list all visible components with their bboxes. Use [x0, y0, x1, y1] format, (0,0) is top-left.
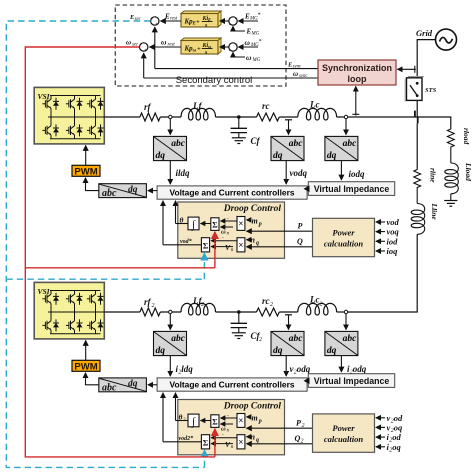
voltage and current controllers box DG2	[157, 378, 307, 391]
ground (Cf)	[232, 138, 246, 144]
svg-text:ldq: ldq	[181, 364, 193, 374]
node iodq tap	[344, 115, 347, 118]
capacitor Cf	[231, 117, 247, 138]
PI block KpE+KiE/s	[181, 11, 221, 29]
svg-text:sync: sync	[293, 64, 302, 69]
wire mp input arrow DG2	[247, 416, 251, 418]
wire tap down to abc/dq (i2ldq)	[169, 314, 171, 330]
resistor rc	[257, 113, 280, 121]
svg-text:dq: dq	[128, 185, 138, 195]
svg-text:iodq: iodq	[349, 169, 366, 179]
wire vod2* out of droop box	[163, 441, 201, 443]
svg-text:+: +	[235, 43, 238, 48]
svg-text:ω: ω	[126, 39, 131, 47]
wire v2oq input	[376, 426, 385, 428]
wire w_sec arrow into droop2 sum	[214, 429, 216, 457]
wire controllers to dq/abc	[148, 190, 157, 192]
svg-text:od: od	[394, 413, 403, 423]
wire Q from power calc to multiplier	[247, 246, 313, 248]
wire theta up into controllers	[175, 201, 177, 224]
power calculation box DG1	[313, 218, 375, 256]
wire sum to integrator	[201, 223, 211, 225]
svg-text:VSI: VSI	[38, 92, 51, 101]
svg-text:p: p	[258, 221, 262, 227]
wire VSI output to rf	[104, 116, 140, 118]
resistor rload	[447, 127, 454, 149]
svg-text:Σ: Σ	[203, 240, 209, 250]
svg-text:voq: voq	[387, 227, 400, 237]
integrator block DG1	[188, 217, 199, 231]
svg-text:oq: oq	[394, 422, 403, 432]
wire ildq to controllers	[169, 161, 171, 184]
inductor Lc	[298, 108, 337, 120]
svg-text:p: p	[258, 418, 262, 424]
svg-text:Cf: Cf	[251, 136, 261, 146]
svg-text:od: od	[392, 432, 401, 442]
svg-text:Secondary control: Secondary control	[176, 75, 253, 86]
svg-text:2: 2	[201, 302, 204, 308]
wire ioq input	[376, 250, 385, 252]
wire grid voltage tap into sync loop	[398, 66, 416, 73]
svg-text:dq: dq	[128, 379, 138, 389]
wire bus tap up into sync loop	[352, 87, 359, 116]
wire sum to integrator DG2	[201, 420, 211, 422]
svg-text:ω: ω	[193, 49, 197, 54]
wire nq input arrow DG2	[247, 436, 251, 438]
wire rc2 to Lc2 with v2odq tap	[279, 311, 298, 313]
svg-text:rf: rf	[144, 102, 152, 112]
wire E_sec branch to droop1 (cyan)	[6, 278, 204, 280]
wire Vn stub into sum DG2	[211, 443, 233, 445]
svg-text:rest: rest	[168, 42, 176, 47]
svg-text:×: ×	[238, 416, 243, 426]
wire E_sec distribution (cyan dashed)	[6, 21, 204, 467]
wire PWM to VSI	[85, 146, 87, 166]
abc/dq block i2ldq	[154, 331, 187, 356]
svg-text:Σ: Σ	[212, 417, 218, 427]
svg-text:Voltage and Current controller: Voltage and Current controllers	[169, 188, 294, 198]
svg-text:-: -	[229, 23, 231, 29]
sum block w DG1	[211, 218, 219, 231]
inverse dq/abc block DG1	[99, 184, 147, 200]
svg-text:rf: rf	[144, 297, 152, 307]
wire multiplier to sum (E row)	[211, 240, 237, 242]
summing junction E comparator (right, top)	[229, 17, 238, 29]
svg-text:Virtual Impedance: Virtual Impedance	[314, 184, 390, 194]
wire STS to bus junction	[416, 100, 418, 117]
svg-text:calcualtion: calcualtion	[324, 434, 363, 444]
wire E_sec arrow into droop2 sum	[204, 450, 206, 467]
resistor rline	[414, 168, 421, 190]
svg-text:n: n	[251, 235, 256, 244]
svg-text:*: *	[258, 13, 261, 19]
inductor Lf2	[181, 303, 216, 315]
wire Lc2 to bus	[337, 311, 346, 313]
svg-text:Synchronization: Synchronization	[322, 63, 392, 73]
multiplier block nq DG1	[237, 238, 245, 252]
svg-text:PWM: PWM	[74, 166, 97, 177]
wire Lf to rc with Cf node	[216, 116, 257, 118]
wire nq input arrow	[247, 239, 251, 241]
VSI inverter U2	[34, 282, 104, 339]
svg-text:2: 2	[259, 337, 262, 343]
wire Esync vertical into E_sec circle	[154, 27, 156, 68]
inductor Lline	[411, 204, 425, 235]
ground (load)	[444, 201, 457, 207]
multiplier block nq DG2	[237, 435, 245, 449]
transistor Q4 bot-b	[66, 124, 83, 136]
sum block E DG1	[201, 238, 209, 252]
transistor Q2 bot-a	[42, 124, 59, 136]
wire Lload to ground	[450, 194, 452, 201]
wire P from power calc to multiplier	[247, 230, 313, 232]
svg-text:n: n	[231, 247, 234, 253]
svg-text:n: n	[251, 432, 256, 441]
node wMG* input arrow	[238, 46, 258, 48]
svg-text:MG: MG	[252, 58, 261, 63]
transistor Q1 top-a	[42, 98, 59, 110]
wire vod input	[376, 221, 385, 223]
svg-text:+: +	[151, 17, 154, 22]
wire rc to Lc with vodq tap	[279, 116, 298, 118]
wire rf to Lf with tap node	[160, 116, 181, 118]
svg-text:+: +	[140, 43, 143, 48]
svg-text:n: n	[231, 444, 234, 450]
wire bus junction down to line branch	[416, 123, 418, 167]
wire EMG feedback	[233, 26, 245, 31]
abc/dq block ildq	[154, 136, 187, 161]
inverse dq/abc block DG2	[99, 378, 147, 394]
wire VSI2 output to rf2	[104, 311, 140, 313]
wire mp input arrow	[247, 219, 251, 221]
wire iodq to virtual impedance	[340, 161, 342, 180]
svg-text:abc: abc	[102, 188, 117, 199]
droop control box DG1	[178, 202, 285, 258]
svg-text:P: P	[296, 419, 301, 428]
node ildq tap	[169, 115, 172, 118]
node Cf junction	[237, 115, 241, 119]
svg-text:Droop Control: Droop Control	[223, 402, 282, 412]
transistor Q3 top-b	[66, 98, 83, 110]
wire w_sec distribution (red)	[25, 47, 215, 457]
multiplier block mp DG2	[237, 414, 245, 428]
svg-text:sec: sec	[135, 17, 142, 22]
wire vod* out of droop box	[163, 244, 201, 246]
svg-text:+: +	[155, 22, 158, 27]
integrator block DG2	[188, 414, 199, 428]
svg-text:Lc: Lc	[309, 100, 320, 110]
virtual impedance box DG1	[308, 182, 394, 196]
wire comparator to PI block w row	[220, 46, 229, 48]
sum block E DG2	[201, 435, 209, 449]
sum block w DG2	[211, 415, 219, 428]
svg-text:θ: θ	[179, 412, 183, 421]
svg-text:q: q	[256, 437, 259, 443]
wire Vn stub into sum	[211, 246, 233, 248]
VSI inverter U1	[34, 87, 104, 143]
svg-text:vod*: vod*	[180, 238, 193, 245]
svg-text:-: -	[222, 432, 224, 438]
svg-text:ildq: ildq	[176, 168, 191, 178]
wire grid to STS	[417, 40, 435, 78]
wire wn stub into sum	[221, 226, 233, 228]
svg-text:abc: abc	[102, 382, 117, 393]
svg-text:sec: sec	[132, 43, 139, 48]
wire rload to Lload	[450, 149, 452, 163]
svg-text:oq: oq	[392, 442, 401, 452]
svg-text:m: m	[252, 413, 258, 422]
secondary control dashed box	[115, 5, 286, 86]
svg-text:rload: rload	[462, 128, 471, 145]
svg-text:ω: ω	[293, 70, 298, 78]
svg-text:ω: ω	[246, 53, 252, 62]
svg-text:Lc: Lc	[309, 295, 320, 305]
wire P2 from power calc to multiplier	[247, 427, 313, 429]
wire i2ldq to controllers	[169, 356, 171, 376]
breaker tick marks at bus junction	[415, 111, 418, 124]
wire vod* up into controllers	[162, 201, 164, 245]
svg-text:m: m	[252, 216, 258, 225]
svg-text:θ: θ	[180, 215, 184, 224]
svg-text:rc: rc	[262, 101, 270, 111]
wire Lf2 to rc2 with Cf2 node	[216, 311, 257, 313]
wire tap down to abc/dq (ildq)	[169, 119, 171, 135]
svg-text:rest: rest	[170, 16, 178, 21]
virtual impedance box DG2	[308, 374, 394, 388]
svg-text:vod2*: vod2*	[179, 435, 195, 442]
svg-text:q: q	[256, 240, 259, 246]
svg-text:STS: STS	[425, 87, 437, 94]
svg-text:*: *	[259, 39, 262, 45]
PI block Kpw+Kiw/s	[181, 38, 221, 56]
wire theta2 out of droop box	[176, 420, 189, 422]
wire Lc to bus junction	[337, 116, 418, 118]
wire E_sec arrow into droop1 sum	[203, 253, 205, 279]
wire theta out of droop box	[176, 223, 189, 225]
transistor Q5 top-c	[87, 98, 104, 110]
power calculation box DG2	[313, 414, 375, 452]
multiplier block mp DG1	[237, 217, 245, 231]
wire wsync horizontal	[144, 77, 318, 79]
svg-text:Droop Control: Droop Control	[223, 204, 282, 214]
PWM block DG2	[72, 360, 100, 372]
svg-text:Q: Q	[297, 237, 303, 246]
synchronization loop block	[318, 60, 396, 85]
wire wn stub into sum DG2	[221, 423, 233, 425]
wire w_sec arrow into droop1 sum	[214, 232, 216, 268]
svg-text:-: -	[229, 49, 231, 55]
svg-text:ω: ω	[245, 38, 251, 47]
svg-text:2: 2	[302, 423, 305, 429]
wire PWM2 to VSI2	[85, 341, 87, 361]
resistor rf2	[140, 308, 160, 316]
wire Lline down to DG2 bus	[346, 234, 417, 312]
svg-text:ioq: ioq	[387, 246, 399, 256]
svg-text:+: +	[235, 17, 238, 22]
inductor Lc2	[298, 303, 337, 315]
svg-text:Lload: Lload	[464, 162, 473, 181]
svg-text:MG: MG	[251, 32, 260, 37]
resistor rf	[140, 113, 160, 121]
wire virtual impedance to controllers	[304, 186, 310, 193]
svg-text:×: ×	[238, 219, 243, 229]
wire w_sec branch to droop1 (red)	[25, 267, 215, 269]
wire wMG feedback	[233, 52, 245, 57]
wire theta2 up into controllers	[175, 393, 177, 421]
droop control box DG2	[178, 400, 285, 455]
svg-text:P: P	[298, 222, 303, 231]
wire v2od input	[376, 417, 385, 419]
wire tap down to abc/dq (iodq)	[345, 119, 347, 135]
wire Q2 from power calc to multiplier	[247, 443, 313, 445]
wire voq input	[376, 231, 385, 233]
voltage and current controllers box DG1	[157, 186, 307, 199]
svg-text:-: -	[227, 215, 229, 221]
wire i2od input	[376, 436, 385, 438]
svg-text:Lline: Lline	[430, 203, 439, 221]
capacitor Cf2	[231, 312, 247, 333]
wire rf2 to Lf2 with tap node	[160, 311, 181, 313]
wire v2odq to controllers	[285, 356, 287, 376]
svg-text:Grid: Grid	[416, 28, 433, 38]
wire tap down to abc/dq (vodq)	[288, 120, 290, 135]
svg-text:iod: iod	[387, 236, 399, 246]
svg-text:-: -	[227, 412, 229, 418]
svg-text:+: +	[144, 48, 147, 53]
wire controllers to dq/abc DG2	[148, 384, 157, 386]
node vodq tap tick	[285, 119, 292, 121]
node i2odq tap	[344, 310, 347, 313]
node EMG* input arrow	[238, 20, 258, 22]
inductor Lload	[445, 163, 459, 194]
inductor Lf	[181, 108, 216, 120]
svg-text:rc: rc	[262, 296, 270, 306]
wire multiplier to sum (E row) DG2	[211, 437, 237, 439]
wire tap down to abc/dq (i2odq)	[345, 314, 347, 330]
wire i2oq input	[376, 446, 385, 448]
STS switch box	[405, 77, 424, 102]
abc/dq block iodq	[325, 136, 358, 161]
svg-text:odq: odq	[297, 364, 311, 374]
svg-text:2: 2	[320, 302, 323, 308]
svg-text:ω: ω	[161, 37, 167, 46]
summing junction E_sec (left top)	[151, 17, 159, 28]
node i2ldq tap	[169, 310, 172, 313]
svg-text:vodq: vodq	[290, 168, 308, 178]
svg-text:Voltage and Current controller: Voltage and Current controllers	[169, 380, 294, 390]
wire bus junction to load branch	[417, 117, 451, 127]
svg-text:+: +	[197, 46, 201, 53]
wire PI to w summing circle, label wrest	[150, 46, 181, 48]
wire i2odq to virtual impedance	[340, 356, 342, 372]
svg-text:+: +	[196, 19, 200, 26]
wire multiplier to sum (w row) DG2	[221, 417, 237, 419]
PWM block DG1	[72, 165, 100, 177]
wire multiplier to sum (w row)	[221, 220, 237, 222]
wire iod input	[376, 240, 385, 242]
wire vodq to controllers	[285, 161, 287, 184]
abc/dq block vodq	[271, 136, 304, 161]
svg-text:×: ×	[238, 240, 243, 250]
resistor rc2	[257, 308, 280, 316]
svg-text:2: 2	[270, 302, 273, 308]
svg-text:calcualtion: calcualtion	[324, 239, 363, 249]
wire tap down to abc/dq (v2odq)	[288, 315, 290, 330]
svg-text:odq: odq	[353, 364, 367, 374]
wire virtual impedance to controllers DG2	[304, 378, 310, 385]
svg-text:2: 2	[152, 303, 155, 309]
wire Esync horizontal	[155, 68, 318, 70]
svg-text:Power: Power	[332, 423, 355, 433]
abc/dq block i2odq	[325, 331, 358, 356]
svg-text:Power: Power	[332, 228, 355, 238]
svg-text:rline: rline	[429, 168, 438, 183]
abc/dq block v2odq	[271, 331, 304, 356]
ground (Cf2)	[232, 333, 246, 339]
node Cf2 junction	[237, 310, 241, 314]
svg-text:Lf: Lf	[192, 101, 202, 111]
svg-text:-: -	[222, 235, 224, 241]
wire comparator to PI block E row	[220, 20, 229, 22]
svg-text:Σ: Σ	[212, 220, 218, 230]
wire dq/abc to PWM	[86, 178, 99, 191]
svg-text:vod: vod	[387, 217, 400, 227]
node v2odq tap tick	[285, 314, 292, 316]
wire PI to E summing circle, label Erest	[161, 20, 181, 22]
svg-text:2: 2	[301, 439, 304, 445]
summing junction w_sec (left bottom)	[140, 43, 148, 54]
svg-text:Virtual Impedance: Virtual Impedance	[314, 376, 390, 386]
summing junction w comparator (right, bottom)	[229, 43, 238, 55]
svg-text:PWM: PWM	[74, 361, 97, 372]
svg-text:sync: sync	[299, 74, 308, 79]
svg-text:×: ×	[238, 437, 243, 447]
wire rline to Lline	[416, 190, 418, 204]
wire wsync vertical into w_sec circle	[143, 53, 145, 78]
svg-text:Σ: Σ	[203, 437, 209, 447]
wire dq/abc to PWM DG2	[86, 373, 99, 385]
wire vod2* up into controllers	[162, 393, 164, 442]
svg-text:loop: loop	[348, 74, 367, 84]
grid AC source	[436, 29, 457, 50]
transistor Q6 bot-c	[87, 124, 104, 136]
